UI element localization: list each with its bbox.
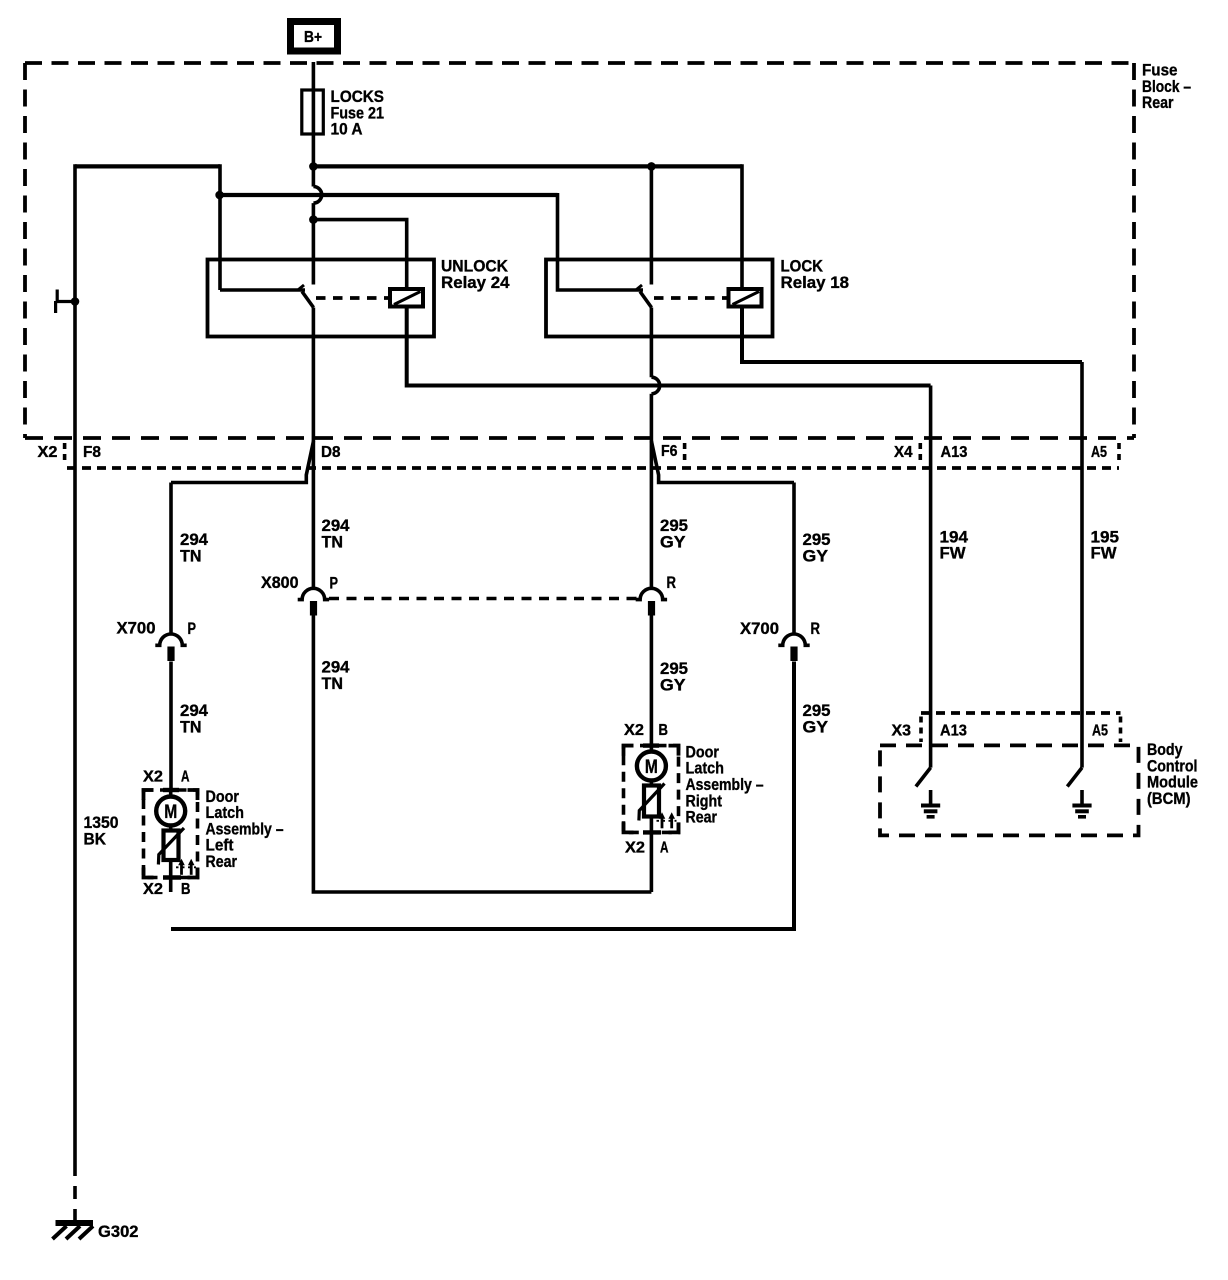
label Fuse Block - Rear: [1142, 61, 1191, 113]
node stub junction: [71, 297, 80, 306]
svg-text:A13: A13: [940, 723, 967, 740]
label 1350 BK: [84, 813, 119, 848]
svg-text:D8: D8: [321, 444, 341, 461]
svg-text:X2: X2: [143, 769, 163, 786]
connector row 1 dashed line (fuse block bottom): [25, 436, 1134, 440]
wire hop of F6 vertical over coil run: [651, 377, 659, 394]
label 294 TN (D8 upper): [322, 516, 351, 551]
svg-text:X4: X4: [894, 444, 913, 461]
wire main vertical to unlock switch: [312, 203, 316, 284]
wire X700P down to left latch: [169, 662, 173, 791]
separator after F6: [683, 443, 687, 463]
connector X700 R: [740, 619, 820, 661]
wire lock switch output to F6: [650, 394, 654, 441]
wire X700R down to bottom run: [171, 662, 794, 930]
label 195 FW: [1091, 527, 1120, 562]
lock relay dashed actuator link: [654, 296, 729, 300]
svg-text:B+: B+: [304, 29, 322, 46]
wire D8 vertical to X800 P: [312, 441, 316, 588]
motor M left rear: [156, 797, 185, 826]
label X2 B (left latch bottom): [143, 881, 191, 898]
svg-text:Rear: Rear: [686, 808, 718, 827]
wire X800R down to right latch: [650, 616, 654, 746]
bcm ground A13: [921, 790, 940, 817]
bcm ground A5: [1072, 790, 1091, 817]
connector row 1 dotted line: [67, 466, 1119, 470]
ground G302: [53, 1220, 139, 1241]
fuse block - rear dashed box: [25, 63, 1134, 438]
wire F6 branch slant to right run: [651, 441, 794, 483]
svg-text:A13: A13: [941, 444, 968, 461]
wire X700 R branch vertical: [792, 483, 796, 634]
wire lock switch feed vertical: [558, 193, 644, 290]
svg-text:10 A: 10 A: [331, 120, 363, 139]
lock relay coil: [729, 289, 762, 307]
separator X3 row right: [1119, 717, 1123, 743]
label X2 A (right latch bottom): [625, 840, 669, 857]
svg-text:GY: GY: [660, 532, 686, 551]
svg-text:X3: X3: [892, 723, 912, 740]
arrows left rear: [180, 862, 183, 875]
separator after A5: [1117, 443, 1121, 463]
wire X700 P branch vertical: [169, 483, 173, 634]
svg-text:R: R: [811, 619, 821, 638]
wire bus B+ right (to LOCK relay area): [313, 164, 742, 168]
svg-text:M: M: [645, 756, 658, 778]
connector X700 P: [117, 619, 197, 662]
wire unlock switch output down to D8: [312, 308, 316, 442]
node unlock coil branch junction: [309, 215, 318, 224]
svg-text:Rear: Rear: [206, 852, 238, 871]
wire 1350 BK dashed tail: [73, 1163, 77, 1220]
label X2 A (left latch top): [143, 769, 190, 786]
node fuse output junction: [309, 162, 318, 171]
bcm switch A13: [916, 768, 931, 787]
label Door Latch Assembly - Left Rear: [206, 787, 284, 871]
wire A5 vertical: [1080, 362, 1084, 768]
svg-text:X700: X700: [117, 619, 156, 638]
wire A13 vertical: [929, 386, 933, 768]
wire left vertical F8: [73, 164, 77, 1163]
wire lock coil down and across to A5: [742, 307, 1082, 363]
svg-text:R: R: [667, 573, 677, 592]
label 294 TN (X700P upper): [180, 530, 209, 565]
unlock switch blade: [302, 292, 314, 308]
unlock relay coil: [390, 289, 423, 307]
separator after X2: [63, 443, 67, 463]
svg-text:FW: FW: [1091, 544, 1118, 563]
svg-text:A: A: [660, 840, 669, 857]
wire unlock coil down and across to A13: [407, 307, 931, 386]
wire cross feed to lock relay: [220, 193, 558, 197]
connector X800 P: [261, 573, 338, 616]
wire unlock switch fixed feed: [220, 288, 305, 292]
svg-text:GY: GY: [803, 546, 829, 565]
label 294 TN (X700P lower): [180, 701, 209, 736]
dashed link X800 P to R: [329, 597, 637, 601]
arrows right rear: [661, 816, 664, 829]
svg-text:M: M: [164, 801, 177, 823]
body control module dashed box: [880, 745, 1139, 835]
fuse LOCKS Fuse 21 10A: [302, 87, 384, 139]
wire D8 branch slant to left run: [171, 441, 314, 483]
separator after X4: [918, 443, 922, 463]
wire left branch top: [75, 164, 220, 168]
svg-text:FW: FW: [940, 544, 967, 563]
bcm switch A5: [1067, 768, 1082, 787]
svg-text:X2: X2: [143, 881, 163, 898]
svg-text:B: B: [181, 881, 191, 898]
svg-text:TN: TN: [180, 717, 202, 736]
label 295 GY (X800R lower): [660, 659, 688, 694]
svg-text:GY: GY: [803, 717, 829, 736]
row 1 labels: [38, 443, 1108, 461]
svg-text:TN: TN: [322, 532, 344, 551]
wire lock relay common down: [650, 166, 654, 284]
svg-text:F6: F6: [661, 443, 678, 460]
relay LOCK Relay 18 box: [546, 260, 773, 337]
svg-text:X2: X2: [624, 722, 644, 739]
separator X3 row left: [919, 717, 923, 743]
svg-text:P: P: [330, 574, 339, 593]
wire unlock switch feed vertical: [218, 164, 222, 290]
label UNLOCK Relay 24: [441, 257, 510, 292]
label 295 GY (X700R lower): [803, 701, 831, 736]
wire F6 vertical to X800 R: [650, 441, 654, 588]
node feed branch junction: [215, 191, 224, 200]
label 294 TN (X800P lower): [322, 658, 351, 693]
label X2 B (right latch top): [624, 722, 668, 739]
motor M right rear: [637, 752, 666, 781]
actuator right rear: [644, 786, 659, 817]
svg-text:F8: F8: [83, 444, 101, 461]
lock switch contact tick: [637, 285, 643, 290]
svg-text:A: A: [181, 769, 190, 786]
wire hop of main vertical over cross feed: [313, 187, 321, 204]
svg-text:TN: TN: [322, 674, 344, 693]
wire branch to unlock coil: [313, 220, 406, 289]
unlock switch contact tick: [299, 285, 305, 290]
svg-text:X800: X800: [261, 573, 299, 592]
svg-text:X2: X2: [38, 444, 58, 461]
label 194 FW: [940, 527, 969, 562]
svg-text:G302: G302: [98, 1222, 139, 1241]
lock switch blade: [640, 292, 652, 308]
wire B+ down to fuse: [312, 62, 316, 90]
svg-text:Rear: Rear: [1142, 93, 1174, 112]
wire through fuse: [312, 90, 316, 134]
svg-text:A5: A5: [1092, 723, 1108, 740]
unlock relay dashed actuator link: [316, 296, 390, 300]
connector stub on left wire: [56, 290, 75, 314]
svg-text:B: B: [659, 722, 669, 739]
door latch assembly right rear: [624, 746, 679, 892]
wire X800P down to bottom run: [313, 616, 651, 893]
connector row 2 dotted line: [921, 711, 1121, 715]
label LOCK Relay 18: [781, 257, 850, 292]
svg-text:A5: A5: [1091, 444, 1107, 461]
door latch assembly left rear: [144, 790, 198, 892]
actuator left rear: [164, 831, 179, 861]
svg-text:Relay 24: Relay 24: [441, 273, 510, 292]
row 2 labels: [892, 723, 1109, 740]
relay UNLOCK Relay 24 box: [208, 260, 435, 337]
label 295 GY (X700R upper): [803, 530, 831, 565]
B+ terminal box: [291, 22, 338, 52]
svg-text:BK: BK: [84, 829, 107, 848]
node LOCK relay feed junction: [647, 162, 656, 171]
svg-text:P: P: [188, 619, 197, 638]
svg-text:GY: GY: [660, 675, 686, 694]
wire lock coil feed vertical: [740, 164, 744, 289]
wire fuse down to hop: [312, 134, 316, 187]
svg-text:TN: TN: [180, 546, 202, 565]
svg-text:Relay 18: Relay 18: [781, 273, 850, 292]
wire lock switch output down: [650, 308, 654, 378]
connector X800 R: [636, 573, 676, 616]
svg-text:(BCM): (BCM): [1147, 789, 1191, 808]
label Door Latch Assembly - Right Rear: [686, 742, 764, 826]
svg-text:X700: X700: [740, 619, 779, 638]
label 295 GY (F6 upper): [660, 516, 688, 551]
svg-text:X2: X2: [625, 840, 645, 857]
label Body Control Module (BCM): [1147, 740, 1198, 808]
